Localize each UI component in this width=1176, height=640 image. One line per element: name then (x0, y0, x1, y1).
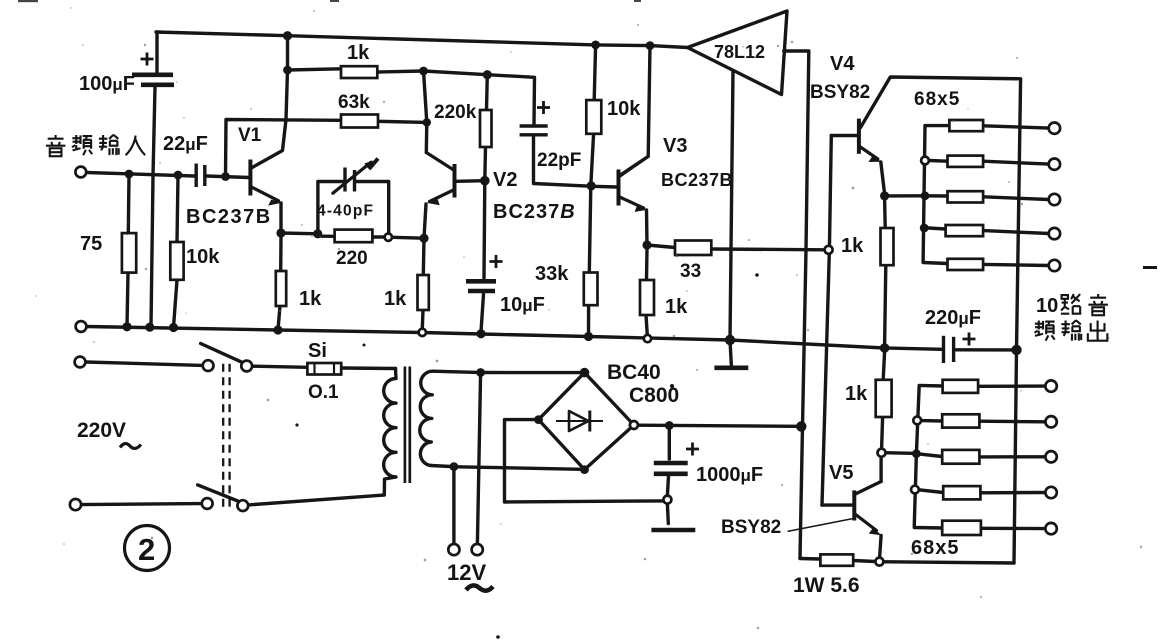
svg-text:22pF: 22pF (537, 150, 581, 171)
svg-text:O.1: O.1 (308, 382, 339, 403)
svg-text:1k: 1k (347, 42, 370, 64)
svg-text:1000μF: 1000μF (696, 464, 763, 486)
svg-text:BC237B: BC237B (493, 201, 576, 223)
svg-text:68x5: 68x5 (914, 89, 960, 110)
svg-text:220V: 220V (77, 419, 126, 442)
svg-text:220μF: 220μF (925, 307, 981, 329)
svg-text:33: 33 (680, 261, 701, 282)
svg-text:10k: 10k (607, 98, 641, 120)
svg-text:100μF: 100μF (79, 73, 135, 95)
svg-text:V1: V1 (238, 125, 262, 146)
svg-text:1k: 1k (841, 235, 864, 257)
svg-text:10: 10 (1036, 295, 1058, 317)
svg-text:78L12: 78L12 (714, 42, 765, 62)
svg-text:10μF: 10μF (500, 294, 545, 316)
svg-text:10k: 10k (186, 246, 220, 268)
svg-text:33k: 33k (535, 263, 569, 285)
svg-text:BC40: BC40 (607, 361, 661, 384)
svg-text:1k: 1k (845, 383, 868, 405)
svg-text:V5: V5 (829, 462, 853, 484)
svg-text:220: 220 (336, 248, 368, 269)
svg-text:75: 75 (80, 233, 102, 255)
svg-text:63k: 63k (338, 92, 370, 113)
svg-text:1k: 1k (384, 288, 407, 310)
svg-text:BC237B: BC237B (661, 170, 733, 190)
svg-text:1W 5.6: 1W 5.6 (793, 574, 860, 597)
svg-text:1k: 1k (665, 296, 688, 318)
svg-text:V4: V4 (830, 53, 855, 75)
svg-text:68x5: 68x5 (911, 537, 960, 559)
svg-text:V2: V2 (493, 169, 517, 191)
svg-text:4-40pF: 4-40pF (317, 203, 374, 220)
svg-text:Si: Si (308, 340, 327, 362)
svg-text:12V: 12V (447, 560, 486, 585)
svg-text:V3: V3 (663, 135, 687, 157)
svg-text:22μF: 22μF (163, 133, 208, 155)
svg-text:220k: 220k (434, 102, 477, 123)
svg-text:BSY82: BSY82 (810, 82, 870, 103)
svg-text:BSY82: BSY82 (721, 517, 781, 538)
svg-text:1k: 1k (299, 288, 322, 310)
svg-text:BC237B: BC237B (186, 206, 272, 228)
